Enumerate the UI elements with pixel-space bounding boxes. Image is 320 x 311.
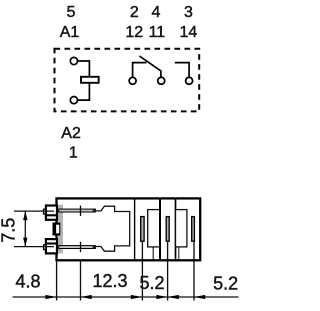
relay body outline bbox=[57, 198, 201, 260]
terminal 12 circle bbox=[129, 77, 136, 84]
dim 7.5 arrow down bbox=[23, 238, 27, 247]
arrow right at 167.6 bbox=[156, 295, 167, 299]
arrow left at 167.6 bbox=[168, 295, 179, 299]
coil bar top end cap bbox=[93, 209, 96, 212]
rect B bbox=[176, 210, 187, 247]
svg-text:5.2: 5.2 bbox=[213, 273, 238, 293]
svg-text:A2: A2 bbox=[61, 125, 81, 142]
svg-text:5: 5 bbox=[66, 4, 75, 21]
rect A stub bbox=[152, 247, 154, 259]
extension line slot A bbox=[141, 241, 143, 300]
extension line slot C bbox=[193, 241, 195, 300]
side latch white slot bbox=[56, 225, 59, 233]
dim 7.5 extension line bottom bbox=[14, 246, 54, 248]
terminal A2 circle bbox=[70, 97, 77, 104]
svg-text:7.5: 7.5 bbox=[0, 218, 18, 243]
switch arm from 11 bbox=[140, 56, 161, 77]
centerline tick bottom bbox=[80, 242, 82, 252]
svg-text:A1: A1 bbox=[60, 24, 80, 41]
extension line body left bbox=[56, 262, 58, 301]
mounting tab top bbox=[46, 206, 57, 220]
tab bottom inner line bbox=[46, 242, 57, 244]
dim 7.5 line bbox=[24, 211, 26, 247]
svg-text:3: 3 bbox=[184, 4, 193, 21]
terminal A1 circle bbox=[70, 57, 77, 64]
wire NC contact 12 bbox=[133, 63, 147, 77]
svg-text:2: 2 bbox=[130, 4, 139, 21]
wire NO contact 14 bbox=[175, 63, 189, 78]
slot B bbox=[166, 217, 169, 242]
svg-text:1: 1 bbox=[69, 144, 78, 161]
centerline tick top bbox=[80, 206, 82, 216]
wire A1 to coil bbox=[78, 61, 90, 76]
svg-text:4: 4 bbox=[151, 4, 160, 21]
shading band left bbox=[58, 205, 63, 254]
side latch box bbox=[54, 224, 60, 235]
svg-text:11: 11 bbox=[149, 24, 166, 41]
svg-text:12: 12 bbox=[125, 24, 143, 41]
wire coil to A2 bbox=[78, 83, 90, 100]
extension line coil center bbox=[80, 262, 82, 301]
svg-text:14: 14 bbox=[180, 24, 198, 41]
svg-text:5.2: 5.2 bbox=[139, 273, 164, 293]
plug profile bbox=[95, 206, 129, 251]
slot A bbox=[141, 217, 144, 242]
divider 2 bbox=[159, 200, 161, 260]
tab bottom protrusion bbox=[44, 245, 46, 250]
mounting tab bottom bbox=[46, 239, 57, 253]
side latch left wall bbox=[53, 223, 57, 236]
divider 3 bbox=[175, 200, 177, 260]
tab top inner line bbox=[46, 214, 57, 216]
coil K1 bbox=[81, 77, 99, 83]
dim 7.5 arrow up bbox=[23, 211, 27, 220]
coil bar bottom end cap bbox=[93, 246, 96, 249]
terminal 11 circle bbox=[158, 77, 165, 84]
divider 1 bbox=[134, 200, 136, 260]
bottom dimension line bbox=[13, 296, 239, 298]
svg-text:4.8: 4.8 bbox=[15, 272, 40, 292]
arrow right at 142.1 bbox=[131, 295, 142, 299]
svg-text:12.3: 12.3 bbox=[92, 271, 127, 291]
rect A bbox=[148, 210, 160, 247]
rect B stub bbox=[178, 247, 180, 259]
arrow right at 56.6 bbox=[45, 295, 56, 299]
coil bar top bbox=[59, 209, 96, 212]
slot C bbox=[192, 217, 195, 242]
arrow left at 80.5 bbox=[81, 295, 92, 299]
dim 7.5 extension line top bbox=[14, 210, 54, 212]
relay outline dashed box bbox=[55, 49, 200, 112]
tab top protrusion bbox=[44, 209, 46, 214]
coil bar bottom bbox=[59, 246, 96, 249]
extension line slot B bbox=[167, 241, 169, 300]
terminal 14 circle bbox=[186, 77, 193, 84]
arrow left at 194 bbox=[194, 295, 205, 299]
